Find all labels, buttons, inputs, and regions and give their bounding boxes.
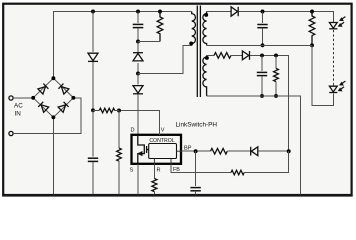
wire line-sense diode column — [92, 12, 94, 53]
node clamp / primary bottom — [136, 72, 140, 76]
wire blocking diode to D pin — [137, 74, 139, 85]
transformer secondary winding — [203, 12, 207, 46]
clamp resistor R-clamp — [157, 12, 163, 42]
node BP cap — [194, 149, 198, 153]
svg-text:R: R — [157, 168, 161, 174]
output diode D-out pointing right — [231, 7, 238, 16]
svg-text:AC: AC — [14, 103, 23, 110]
FB resistor — [231, 170, 244, 175]
wire secondary top rail — [207, 11, 231, 13]
bias resistor — [275, 55, 277, 68]
wire bias return rail — [207, 96, 301, 195]
node sense/V resistor left — [91, 108, 95, 112]
wire cap to bottom edge — [92, 162, 94, 195]
wire down to series cap — [92, 110, 94, 156]
capacitor series (bottom left, cut) — [88, 158, 98, 161]
bias diode pointing right — [242, 51, 249, 60]
transformer bias winding — [203, 55, 207, 96]
node top rail / clamp cap column — [136, 10, 140, 14]
node top rail / clamp resistor column — [158, 10, 162, 14]
node bias cap top — [260, 53, 264, 57]
wire AC bottom to bridge right node — [13, 98, 81, 134]
FB pin wire — [171, 164, 231, 173]
svg-text:V: V — [161, 128, 165, 134]
V lower resistor vertical — [118, 111, 120, 148]
svg-text:BP: BP — [184, 146, 192, 152]
wire FB resistor to bias column — [244, 151, 289, 172]
svg-text:D: D — [131, 128, 135, 134]
node output cap top — [261, 10, 265, 14]
border frame — [3, 4, 351, 195]
blocking diode pointing down to drain — [133, 86, 143, 94]
wire output rail to LED corner — [238, 12, 333, 23]
bias series resistor R-bias — [214, 53, 231, 59]
dashed LED string — [333, 30, 335, 83]
mosfet inside — [138, 136, 149, 163]
diode bridge bottom-right — [58, 102, 68, 112]
wire BP diode to bias column — [258, 150, 289, 152]
V series resistor horizontal — [93, 110, 99, 112]
wire diode to V-node — [92, 62, 94, 110]
wire top rail left — [53, 12, 191, 79]
node top rail / diode column — [91, 10, 95, 14]
clamp capacitor C-clamp — [133, 24, 144, 27]
LED1 arrows — [339, 17, 346, 27]
LED2 arrows — [339, 81, 346, 91]
wire output return rail — [207, 44, 312, 46]
diode bridge top-left — [38, 84, 48, 94]
BP pin wire — [181, 150, 211, 152]
node clamp RC join — [136, 40, 140, 44]
S pin wire — [137, 164, 139, 195]
node bias res top — [274, 53, 278, 57]
wire AC top to bridge left node — [13, 97, 33, 99]
node output resistor top — [310, 10, 314, 14]
diode bridge bottom-left — [38, 102, 48, 112]
polarity dot bias — [205, 56, 209, 60]
wire to bias diode — [231, 54, 242, 56]
wire LED2 to output return — [312, 45, 333, 105]
wire primary bottom return — [138, 46, 192, 74]
diode D-sense pointing down — [88, 53, 98, 61]
wire cap to clamp node — [137, 28, 139, 42]
IC box — [132, 135, 182, 164]
LED1 — [329, 23, 337, 29]
polarity dot primary — [189, 41, 193, 45]
clamp capacitor column wire — [137, 12, 139, 24]
AC input terminal bottom — [9, 131, 13, 135]
transformer core — [197, 6, 200, 98]
bias capacitor — [261, 55, 263, 71]
wire to BP diode — [227, 150, 250, 152]
wire bias supply to right column — [250, 55, 289, 151]
svg-text:CONTROL: CONTROL — [149, 138, 174, 144]
svg-text:IN: IN — [15, 111, 22, 118]
wire clamp diode to primary node — [137, 63, 139, 74]
BP diode pointing left — [251, 147, 258, 156]
node output return / LED return — [310, 43, 314, 47]
wire clamp resistor bottom to node — [138, 41, 160, 43]
V pin wire — [119, 111, 160, 135]
clamp diode D-clamp pointing up — [133, 53, 143, 61]
wire bridge bottom down — [52, 117, 54, 194]
BP series resistor — [211, 148, 228, 154]
svg-text:LinkSwitch-PH: LinkSwitch-PH — [176, 122, 218, 129]
wire node to clamp diode — [137, 42, 139, 53]
bridge rectifier BR1 — [31, 76, 75, 119]
AC input terminal top — [9, 96, 13, 100]
output capacitor C-out — [262, 12, 264, 24]
diode bridge top-right — [58, 84, 68, 94]
wire bias top row — [207, 54, 214, 56]
svg-text:S: S — [130, 168, 134, 174]
transformer T1 primary winding — [192, 12, 196, 46]
LED2 — [329, 86, 337, 92]
polarity dot secondary — [204, 13, 208, 17]
BP capacitor column — [195, 151, 197, 186]
node V divider — [117, 109, 121, 113]
R pin wire + resistor — [153, 164, 155, 179]
output preload resistor R-out — [309, 12, 315, 46]
